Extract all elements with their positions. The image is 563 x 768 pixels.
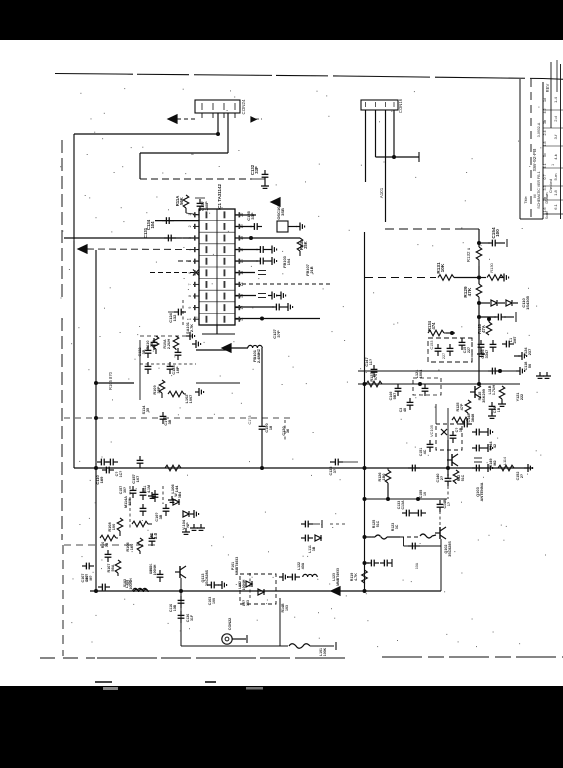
svg-text:100: 100 bbox=[495, 229, 500, 237]
svg-text:R10: R10 bbox=[101, 542, 105, 549]
svg-text:R123: R123 bbox=[391, 523, 395, 531]
svg-text:1.8: 1.8 bbox=[543, 141, 547, 146]
svg-text:M?: M? bbox=[89, 575, 93, 580]
svg-text:33P: 33P bbox=[254, 166, 259, 174]
svg-text:R130: R130 bbox=[489, 262, 494, 272]
svg-text:47K: 47K bbox=[467, 287, 472, 296]
svg-text:20: 20 bbox=[240, 213, 244, 217]
svg-text:R126: R126 bbox=[378, 472, 382, 481]
svg-text:31F: 31F bbox=[190, 614, 194, 621]
svg-text:Q102: Q102 bbox=[444, 545, 448, 554]
svg-text:C155: C155 bbox=[419, 490, 423, 498]
svg-text:L111: L111 bbox=[308, 545, 312, 553]
svg-text:C1?: C1? bbox=[164, 418, 168, 426]
svg-text:C15: C15 bbox=[463, 347, 467, 354]
svg-text:Q113: Q113 bbox=[201, 573, 205, 582]
svg-text:1?: 1? bbox=[447, 502, 451, 506]
svg-text:4-k: 4-k bbox=[553, 154, 558, 160]
svg-text:2?: 2? bbox=[440, 475, 444, 480]
svg-text:4C: 4C bbox=[423, 449, 427, 454]
svg-text:30?: 30? bbox=[123, 487, 127, 493]
svg-text:1-4: 1-4 bbox=[553, 96, 558, 103]
svg-text:103: 103 bbox=[285, 605, 289, 611]
svg-text:C116: C116 bbox=[169, 604, 173, 612]
svg-text:56: 56 bbox=[528, 364, 532, 368]
svg-text:3B: 3B bbox=[312, 546, 316, 551]
svg-text:3B: 3B bbox=[168, 419, 172, 424]
svg-text:2.4: 2.4 bbox=[543, 130, 547, 135]
svg-text:3?: 3? bbox=[333, 468, 337, 473]
svg-text:L5?: L5? bbox=[242, 600, 246, 606]
svg-text:C14B: C14B bbox=[443, 499, 447, 508]
svg-text:1: 1 bbox=[188, 214, 192, 216]
svg-text:1: 1 bbox=[551, 164, 555, 166]
svg-text:3SK299: 3SK299 bbox=[482, 389, 486, 403]
svg-text:8: 8 bbox=[188, 295, 192, 297]
svg-text:3SB: 3SB bbox=[280, 208, 285, 216]
svg-text:C?: C? bbox=[115, 472, 119, 477]
svg-text:2.4MHZ: 2.4MHZ bbox=[256, 348, 261, 363]
svg-text:222: 222 bbox=[520, 394, 524, 400]
svg-text:R12: R12 bbox=[457, 475, 461, 482]
svg-text:3B: 3B bbox=[142, 349, 146, 354]
svg-text:3SC828S: 3SC828S bbox=[205, 569, 209, 586]
svg-text:IC1 TA31142: IC1 TA31142 bbox=[217, 183, 222, 210]
svg-text:100K: 100K bbox=[323, 647, 327, 656]
svg-text:2.d: 2.d bbox=[553, 116, 558, 122]
svg-text:C146: C146 bbox=[389, 392, 393, 401]
svg-text:C140: C140 bbox=[436, 473, 440, 482]
svg-text:33P: 33P bbox=[250, 212, 255, 219]
svg-text:107: 107 bbox=[135, 475, 140, 482]
svg-text:Checked: Checked bbox=[549, 179, 553, 193]
svg-text:100NH: 100NH bbox=[153, 564, 157, 575]
svg-text:240P: 240P bbox=[204, 201, 209, 211]
svg-text:C122: C122 bbox=[138, 347, 142, 356]
svg-text:C136: C136 bbox=[186, 614, 190, 622]
svg-text:ANTENNA: ANTENNA bbox=[479, 482, 484, 501]
svg-text:M114A: M114A bbox=[124, 496, 128, 508]
svg-text:11?: 11? bbox=[368, 358, 373, 365]
svg-text:9: 9 bbox=[188, 307, 192, 309]
svg-text:L132: L132 bbox=[238, 581, 242, 589]
svg-text:17: 17 bbox=[240, 248, 244, 252]
svg-text:7: 7 bbox=[188, 283, 192, 285]
svg-text:R107: R107 bbox=[107, 563, 111, 572]
svg-text:Title: Title bbox=[523, 196, 528, 204]
svg-text:10: 10 bbox=[423, 492, 427, 496]
svg-text:16: 16 bbox=[240, 259, 244, 263]
svg-text:132: 132 bbox=[172, 314, 177, 321]
svg-text:474: 474 bbox=[431, 322, 436, 330]
svg-text:1007: 1007 bbox=[188, 395, 193, 404]
svg-text:Y121: Y121 bbox=[516, 393, 520, 402]
svg-text:R125: R125 bbox=[372, 520, 376, 528]
svg-text:R105 870: R105 870 bbox=[108, 371, 113, 390]
svg-text:47P: 47P bbox=[460, 403, 464, 410]
svg-text:R119: R119 bbox=[350, 573, 354, 582]
svg-text:C103: C103 bbox=[208, 597, 212, 605]
svg-text:CON16: CON16 bbox=[398, 98, 403, 113]
svg-text:3B: 3B bbox=[105, 542, 109, 547]
svg-text:56A: 56A bbox=[111, 564, 115, 571]
svg-text:L121: L121 bbox=[415, 370, 419, 379]
svg-text:13: 13 bbox=[240, 294, 244, 298]
svg-text:R14B: R14B bbox=[281, 603, 285, 612]
svg-text:REV: REV bbox=[545, 83, 550, 92]
svg-text:48: 48 bbox=[403, 408, 407, 412]
svg-text:1B: 1B bbox=[497, 407, 501, 412]
svg-text:42: 42 bbox=[493, 444, 497, 448]
svg-text:3B: 3B bbox=[459, 427, 463, 432]
svg-text:L103: L103 bbox=[149, 566, 153, 574]
svg-text:C3: C3 bbox=[399, 408, 403, 413]
svg-text:2b: 2b bbox=[543, 197, 547, 201]
svg-text:3B: 3B bbox=[159, 514, 163, 519]
svg-text:3.3: 3.3 bbox=[543, 185, 547, 190]
svg-text:M11: M11 bbox=[143, 486, 147, 493]
svg-text:2M7: 2M7 bbox=[513, 337, 517, 344]
svg-text:227: 227 bbox=[442, 353, 446, 359]
svg-text:5-m: 5-m bbox=[553, 173, 558, 181]
svg-text:21B: 21B bbox=[309, 266, 314, 273]
svg-text:C16?: C16? bbox=[155, 512, 159, 522]
svg-text:R125: R125 bbox=[456, 402, 460, 411]
svg-text:5: 5 bbox=[188, 260, 192, 262]
svg-text:3?P: 3?P bbox=[276, 330, 281, 338]
svg-text:1S4305: 1S4305 bbox=[525, 295, 530, 310]
svg-text:40A: 40A bbox=[301, 562, 305, 569]
svg-text:C13A: C13A bbox=[401, 500, 405, 509]
svg-text:P101: P101 bbox=[231, 562, 235, 570]
svg-text:144: 144 bbox=[174, 485, 179, 492]
svg-text:C131: C131 bbox=[143, 227, 148, 238]
svg-text:R115: R115 bbox=[478, 392, 482, 401]
svg-text:51C: 51C bbox=[376, 520, 380, 527]
svg-text:1.8: 1.8 bbox=[553, 189, 558, 195]
svg-text:35P: 35P bbox=[156, 386, 161, 393]
svg-text:4.2: 4.2 bbox=[543, 108, 547, 113]
svg-text:SW-92-FB: SW-92-FB bbox=[532, 148, 538, 172]
svg-text:L122: L122 bbox=[297, 562, 301, 570]
svg-text:MMBT4933: MMBT4933 bbox=[235, 557, 239, 575]
svg-text:C151: C151 bbox=[419, 448, 423, 456]
svg-text:1d: 1d bbox=[543, 98, 547, 102]
svg-text:5c: 5c bbox=[543, 153, 547, 157]
svg-text:51C: 51C bbox=[461, 474, 465, 481]
svg-text:3C: 3C bbox=[395, 524, 399, 529]
svg-text:100: 100 bbox=[212, 598, 216, 604]
svg-text:C133: C133 bbox=[397, 501, 401, 509]
svg-text:SCHEMATIC VER FB-1: SCHEMATIC VER FB-1 bbox=[537, 171, 541, 208]
svg-text:MMBT4933: MMBT4933 bbox=[336, 568, 340, 586]
svg-text:L123: L123 bbox=[332, 573, 336, 581]
svg-text:C157: C157 bbox=[119, 486, 123, 494]
svg-text:6.1: 6.1 bbox=[553, 203, 558, 209]
svg-text:C149: C149 bbox=[489, 458, 493, 467]
svg-text:47A: 47A bbox=[481, 325, 486, 333]
svg-text:C1?3: C1?3 bbox=[248, 415, 252, 424]
svg-text:3SC828S: 3SC828S bbox=[448, 541, 452, 557]
svg-text:10B: 10B bbox=[173, 604, 177, 611]
svg-text:NP: NP bbox=[186, 522, 190, 528]
svg-text:3B4: 3B4 bbox=[178, 492, 182, 498]
svg-text:C?: C? bbox=[455, 428, 459, 433]
svg-text:VC105: VC105 bbox=[429, 425, 434, 437]
svg-text:6: 6 bbox=[188, 272, 192, 274]
svg-text:102: 102 bbox=[127, 580, 131, 586]
svg-text:L1: L1 bbox=[509, 338, 513, 342]
svg-text:103: 103 bbox=[246, 600, 250, 606]
svg-text:R132 u: R132 u bbox=[466, 247, 471, 262]
svg-text:237: 237 bbox=[527, 349, 532, 355]
svg-text:3848: 3848 bbox=[471, 414, 475, 422]
svg-text:C152: C152 bbox=[516, 472, 520, 481]
svg-text:1C?: 1C? bbox=[119, 471, 123, 478]
svg-text:11: 11 bbox=[240, 317, 244, 321]
svg-text:1.7UH: 1.7UH bbox=[492, 384, 496, 395]
svg-text:25K: 25K bbox=[303, 241, 308, 249]
svg-text:2.2UH: 2.2UH bbox=[167, 338, 171, 349]
svg-text:3-0932-A: 3-0932-A bbox=[537, 122, 541, 137]
svg-text:5B7: 5B7 bbox=[393, 393, 397, 400]
svg-text:1: 1 bbox=[188, 318, 192, 320]
svg-text:10K: 10K bbox=[440, 263, 445, 272]
svg-text:C118: C118 bbox=[524, 362, 528, 371]
svg-text:3: 3 bbox=[188, 237, 192, 239]
svg-text:12: 12 bbox=[240, 306, 244, 310]
svg-text:4: 4 bbox=[188, 249, 192, 251]
svg-text:C107: C107 bbox=[85, 574, 89, 582]
svg-text:19: 19 bbox=[240, 224, 244, 228]
svg-text:10A: 10A bbox=[415, 562, 419, 569]
svg-text:2: 2 bbox=[188, 225, 192, 227]
svg-text:3.0: 3.0 bbox=[153, 532, 158, 539]
svg-text:0.7: 0.7 bbox=[543, 174, 547, 179]
svg-text:CON22: CON22 bbox=[228, 618, 232, 631]
svg-text:C14: C14 bbox=[493, 407, 497, 414]
svg-text:56K: 56K bbox=[179, 196, 184, 205]
svg-text:169: 169 bbox=[99, 476, 104, 483]
svg-text:M2: M2 bbox=[493, 460, 497, 465]
svg-text:L101: L101 bbox=[319, 648, 323, 656]
svg-text:C136: C136 bbox=[329, 466, 333, 475]
svg-text:970: 970 bbox=[373, 374, 378, 380]
svg-text:4.1M: 4.1M bbox=[147, 485, 151, 493]
svg-text:100: 100 bbox=[111, 524, 116, 530]
svg-text:104: 104 bbox=[286, 258, 291, 265]
svg-text:4.1: 4.1 bbox=[543, 163, 547, 168]
svg-text:18: 18 bbox=[240, 236, 244, 240]
svg-text:CON24: CON24 bbox=[241, 99, 246, 114]
svg-text:2.7K: 2.7K bbox=[189, 324, 194, 332]
svg-text:R10A: R10A bbox=[163, 339, 167, 349]
svg-text:1004: 1004 bbox=[419, 369, 423, 378]
svg-text:L114: L114 bbox=[503, 457, 507, 465]
svg-text:4.7K: 4.7K bbox=[354, 573, 358, 581]
svg-text:104: 104 bbox=[150, 221, 155, 229]
svg-text:C153: C153 bbox=[430, 340, 434, 349]
svg-text:A101: A101 bbox=[379, 187, 384, 198]
svg-text:L11B: L11B bbox=[488, 385, 492, 394]
svg-text:18P: 18P bbox=[175, 366, 180, 373]
svg-text:15: 15 bbox=[240, 271, 244, 275]
svg-text:1B0: 1B0 bbox=[382, 474, 386, 481]
svg-text:C144: C144 bbox=[489, 441, 493, 451]
svg-text:14: 14 bbox=[240, 282, 244, 286]
svg-text:V-104: V-104 bbox=[182, 519, 186, 530]
svg-text:227: 227 bbox=[467, 347, 471, 353]
svg-text:5103: 5103 bbox=[123, 579, 127, 587]
svg-text:3b: 3b bbox=[543, 120, 547, 124]
svg-text:Scale: Scale bbox=[545, 211, 549, 219]
svg-text:100NH: 100NH bbox=[242, 579, 246, 590]
svg-text:M: M bbox=[533, 194, 537, 197]
